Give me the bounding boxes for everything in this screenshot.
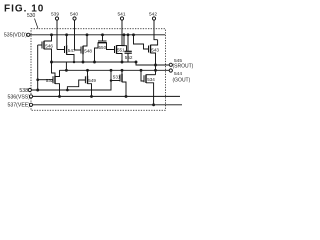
terminal 542 [149, 12, 157, 21]
svg-text:552: 552 [125, 55, 133, 60]
terminal 538 [19, 88, 31, 94]
transistor 551 [113, 35, 126, 62]
junction 538 x37.7 [36, 89, 39, 92]
svg-text:FIG. 10: FIG. 10 [4, 4, 44, 15]
junction node B x122 [121, 69, 124, 72]
wire node A bus [52, 61, 137, 63]
wire node B bus [60, 69, 170, 71]
junction node A x51.5 [50, 61, 53, 64]
terminal 544 (GOUT) [169, 69, 190, 84]
transistor 532 [38, 62, 60, 96]
junction x155.5 SROUT [154, 64, 157, 67]
junction VEE x155.5 [152, 103, 155, 106]
capacitor 552 [125, 35, 133, 62]
junction VDD x67 [65, 33, 68, 36]
svg-text:549: 549 [88, 78, 96, 83]
transistor 534 [141, 70, 156, 105]
wire 538 rail [31, 70, 111, 90]
svg-text:535(VDD): 535(VDD) [4, 33, 27, 39]
svg-text:536(VSS): 536(VSS) [8, 94, 31, 100]
transistor 550 [95, 35, 113, 62]
dashed block 530 outline [31, 29, 165, 111]
junction VSS x59.6 [58, 95, 61, 98]
wire input 540 stem [74, 20, 76, 50]
wire input 541 stem [122, 20, 127, 51]
junction VDD x124 [123, 33, 126, 36]
junction node A x83 [82, 61, 85, 64]
wire SROUT lead [136, 62, 169, 65]
terminal 536 (VSS) [8, 94, 33, 100]
svg-text:543: 543 [151, 47, 159, 52]
wire gate 546 to line 538 [37, 45, 39, 90]
junction VSS x128.5 [125, 95, 128, 98]
wire input 539 stem [56, 20, 58, 49]
junction x155.5 GOUT [154, 69, 157, 72]
wire input 542 stem [154, 20, 158, 40]
junction node A x136 SROUT feed [135, 61, 138, 64]
junction node B x87.5 [86, 69, 89, 72]
junction VDD x87 [86, 33, 89, 36]
junction x141 bus A end [140, 69, 143, 72]
junction VDD x133.5 [132, 33, 135, 36]
block label 530 [27, 13, 38, 29]
transistor 531 [111, 70, 126, 96]
svg-text:544: 544 [174, 71, 182, 77]
terminal 540 [70, 12, 78, 21]
junction gate 532 on 538 wire [36, 78, 39, 81]
junction VDD x102.5 [101, 33, 104, 36]
svg-text:537(VEE): 537(VEE) [8, 103, 31, 109]
transistor 547 [57, 35, 76, 71]
junction node A x122 [121, 61, 124, 64]
svg-text:532: 532 [46, 78, 54, 83]
junction 531 gate on 538 riser [110, 79, 113, 82]
terminal 545 (SROUT) [169, 58, 193, 70]
svg-text:(GOUT): (GOUT) [173, 77, 191, 83]
wire VEE rail [33, 104, 182, 106]
terminal 537 (VEE) [8, 103, 33, 109]
svg-text:530: 530 [27, 13, 36, 19]
svg-text:539: 539 [51, 12, 59, 18]
transistor 549 [67, 70, 96, 96]
svg-text:531: 531 [113, 75, 121, 80]
wire VDD rail [30, 34, 165, 36]
junction VSS x91.7 [90, 95, 93, 98]
junction node A x94.5 [93, 61, 96, 64]
junction 547 source on node A [73, 61, 76, 64]
svg-text:(SROUT): (SROUT) [173, 64, 194, 70]
terminal 535 (VDD) [4, 33, 30, 39]
junction VDD x128 [127, 33, 130, 36]
transistor 543 [134, 35, 160, 75]
transistor 548 [75, 35, 93, 62]
transistor 546 [38, 35, 54, 62]
junction node B x66.6 [65, 69, 68, 72]
wire VSS rail [33, 95, 180, 97]
junction gate 549 on 538 rail [66, 89, 69, 92]
svg-text:550: 550 [99, 45, 107, 50]
junction VDD x51.5 [50, 33, 53, 36]
junction 538 riser on node B [110, 69, 113, 72]
svg-text:538: 538 [19, 88, 28, 94]
svg-text:546: 546 [45, 43, 53, 48]
svg-text:551: 551 [117, 48, 125, 53]
terminal 539 [51, 12, 59, 21]
terminal 541 [118, 12, 126, 21]
svg-text:534: 534 [147, 77, 155, 82]
svg-text:548: 548 [84, 48, 92, 53]
